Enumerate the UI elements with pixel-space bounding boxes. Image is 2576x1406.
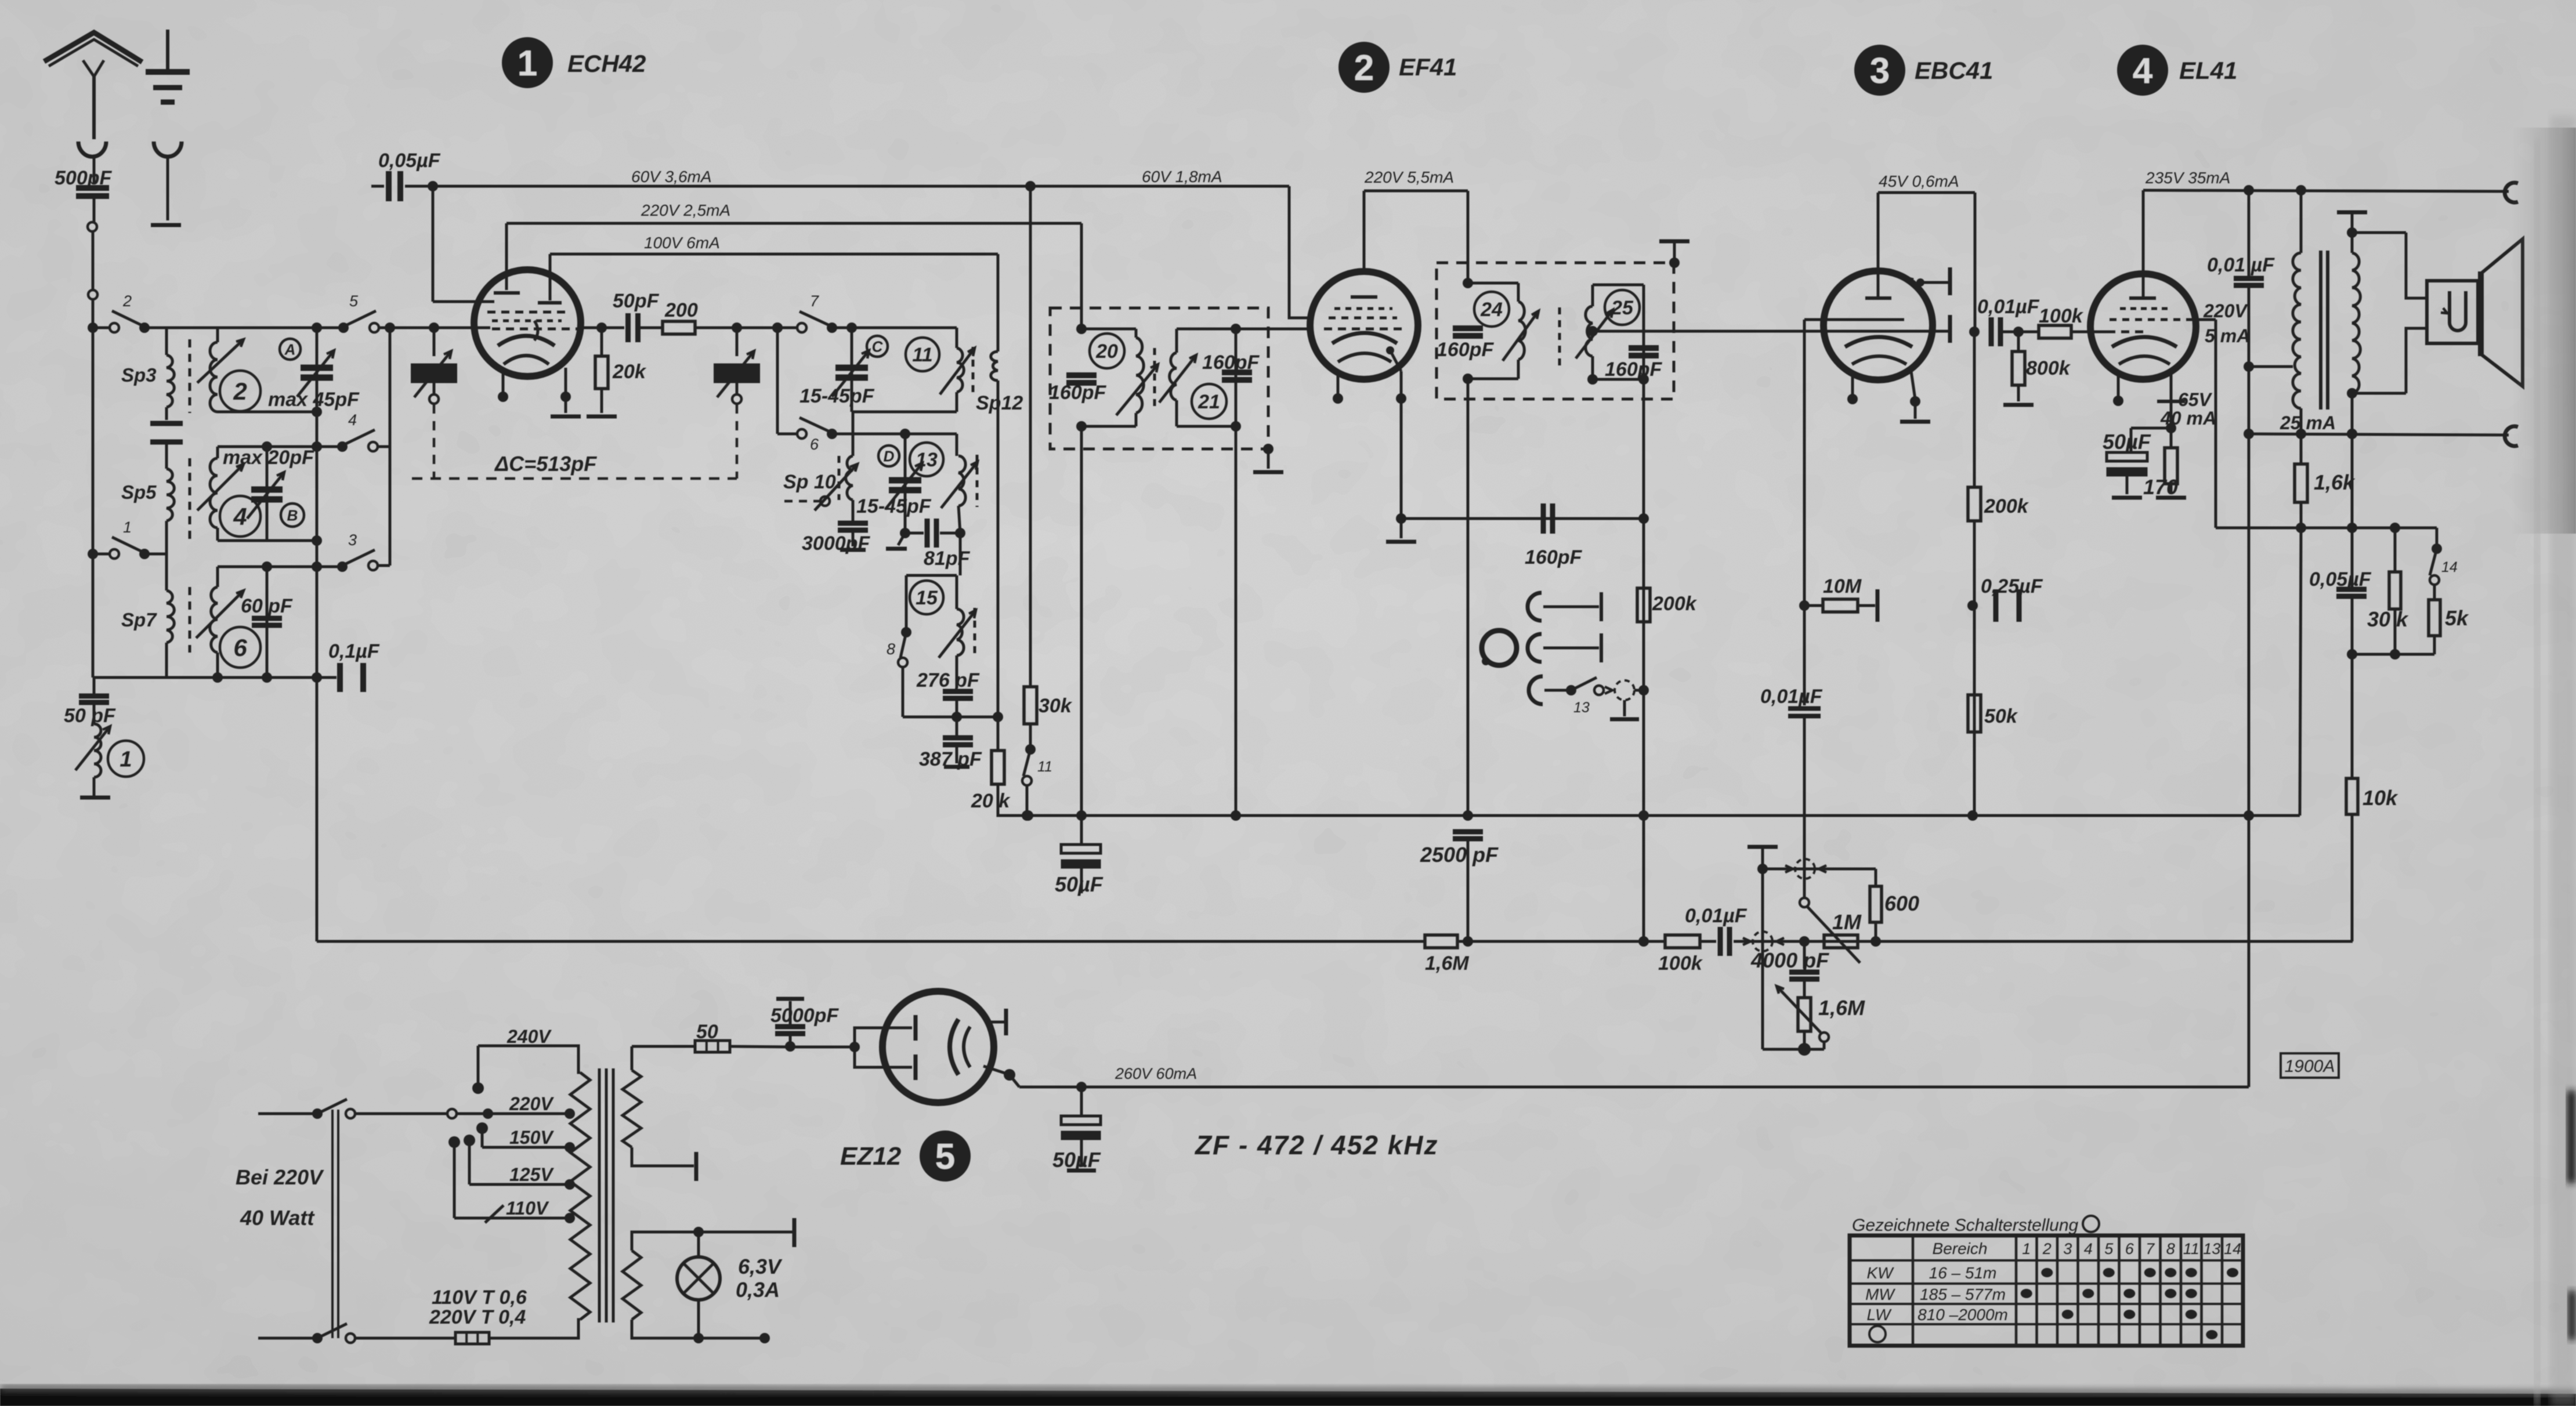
EZ12 cathode arc inner (964, 1027, 970, 1067)
50uF B lower (1080, 1140, 1083, 1167)
tube V1 ECH42 (474, 270, 581, 376)
capacitor 0,01uF coupling (1991, 317, 2000, 346)
svg-text:0,05µF: 0,05µF (378, 150, 441, 172)
label 0,01uF AVC (1685, 905, 1748, 927)
svg-text:1900A: 1900A (2285, 1057, 2335, 1076)
label 200k det (1984, 495, 2029, 517)
capacitor 50pF osc (628, 313, 638, 342)
node EZ12 anodes (849, 1042, 860, 1052)
5000pF T bar (776, 997, 804, 1001)
svg-text:max 45pF: max 45pF (268, 389, 360, 411)
label 0,01uF coupling (1977, 296, 2040, 318)
node rail 0,01uF (2244, 185, 2254, 195)
tank B left lower stub (216, 528, 219, 541)
AVC bus (317, 940, 1425, 943)
ECH42 leg right dot (560, 392, 571, 402)
output transformer secondary (2352, 253, 2360, 393)
secondary top T bar (2337, 211, 2367, 215)
table MW range (1920, 1285, 2006, 1303)
node tank B bottom (312, 535, 322, 546)
switch 5 dot (338, 322, 349, 333)
node fb 0,05uF (2347, 523, 2357, 533)
power transformer primary (570, 1072, 590, 1320)
EL41 cathode arc inner (2119, 356, 2170, 364)
table dot KW col (2144, 1268, 2156, 1277)
node bus 200k det (1967, 810, 1978, 821)
EF41 anode bar (1351, 295, 1377, 299)
svg-text:25 mA: 25 mA (2280, 412, 2336, 433)
EF41 cathode right dot (1396, 393, 1406, 404)
numbered tube 5 (920, 1130, 971, 1182)
node bus tank A right (312, 322, 322, 333)
label 5mA screen (2205, 325, 2250, 346)
node 25mA return (2347, 429, 2357, 439)
wire Sp7 to bottom bus (165, 643, 168, 677)
speaker cone (2482, 239, 2523, 386)
label 1,6M volume (1818, 996, 1865, 1020)
node IF1 sec top (1231, 324, 1241, 334)
diode1 link (1922, 281, 1948, 284)
core dashes tank C (189, 587, 191, 653)
svg-text:4000 pF: 4000 pF (1750, 948, 1829, 972)
1,6k upper stub (2300, 434, 2303, 464)
circle label 15 (910, 581, 943, 614)
svg-text:3: 3 (348, 531, 357, 549)
EBC41 anode vertical (1877, 193, 1880, 297)
label Sp5 (121, 481, 157, 503)
resistor 10M (1823, 599, 1858, 612)
capacitor 276pF (943, 691, 973, 698)
switch 4 lever (342, 430, 375, 445)
potentiometer 1M (1824, 935, 1858, 948)
EF41 cathode arc inner (1338, 353, 1391, 362)
capacitor 0,1uF (340, 663, 363, 692)
IF2 sec top wire (1593, 284, 1644, 287)
gang2 rotor terminal (732, 394, 741, 404)
table dot MW col (2021, 1289, 2032, 1298)
60V rail (405, 185, 1289, 188)
label 15-45pF tank11 (799, 385, 875, 407)
svg-text:11: 11 (2183, 1240, 2199, 1258)
Sp12 to 20k (997, 717, 1000, 751)
table dot KW col (2165, 1268, 2176, 1277)
wire Sp3 to coupling cap (165, 407, 168, 420)
switch position table grid (1850, 1235, 2243, 1346)
capacitor 160pF cathode (1543, 503, 1553, 534)
coil circuit 11 (957, 348, 964, 392)
dial lamp (677, 1257, 720, 1300)
50uF chassis bar (2112, 496, 2142, 500)
svg-text:EZ12: EZ12 (840, 1142, 902, 1171)
trimmer 15-45pF (D) (885, 463, 922, 509)
svg-text:20 k: 20 k (971, 790, 1011, 812)
svg-text:15-45pF: 15-45pF (799, 385, 875, 407)
coupling arrows lower (1743, 938, 1784, 945)
terminal circle 1 (88, 222, 97, 231)
switch 4 contact (368, 442, 378, 451)
tank B coil top stub (216, 447, 219, 458)
tank11 left vertical (851, 328, 853, 412)
label 1M (1832, 910, 1862, 934)
svg-text:6,3V: 6,3V (738, 1255, 783, 1278)
core dashes 13/Sp12 (976, 455, 979, 507)
svg-text:Sp 10: Sp 10 (783, 471, 836, 493)
switch 14 contact (2430, 575, 2439, 585)
antenna plug hook (78, 142, 106, 157)
0,05uF column lower (2351, 597, 2354, 654)
node row2 AVC (312, 441, 322, 452)
EL41 grid dashes (2093, 331, 2147, 334)
label 0,1uF (328, 640, 380, 662)
node IF2 box top (1669, 258, 1680, 268)
svg-text:6: 6 (233, 634, 247, 661)
svg-text:4: 4 (233, 503, 247, 530)
wire switch2 to Sp3 top (146, 327, 167, 329)
EF41 cathode arc outer (1332, 333, 1397, 343)
circle label 20 (1090, 334, 1124, 368)
svg-text:10k: 10k (2362, 786, 2398, 810)
ECH42 cathode left dot (498, 392, 508, 402)
coil Sp7 (167, 590, 174, 643)
table dot KW col (2103, 1268, 2115, 1277)
heater/anode line (632, 1045, 694, 1048)
mains switch lever bottom (317, 1324, 347, 1338)
heater end dot (759, 1333, 770, 1343)
svg-text:A: A (284, 340, 296, 358)
circle label 21 (1192, 384, 1227, 419)
label 500pF (55, 167, 112, 189)
svg-text:240V: 240V (506, 1026, 552, 1047)
EF41 g3 dashes (1334, 307, 1392, 310)
EF41 anode vertical (1363, 191, 1366, 272)
capacitor 0,25uF (1996, 589, 2019, 622)
label 150V (509, 1127, 554, 1148)
scan right black blob 2 (2568, 1291, 2576, 1340)
label EF41 (1399, 53, 1457, 81)
svg-text:50µF: 50µF (1055, 872, 1104, 896)
IF1 chassis bar (1253, 470, 1283, 474)
mains switch dot top (312, 1108, 323, 1119)
label 13 (switch) (1573, 700, 1590, 716)
svg-text:4: 4 (2084, 1240, 2093, 1258)
label 160pF IF1a (1049, 382, 1106, 404)
5000pF stub (789, 1036, 792, 1046)
node IF2 primary bottom (1463, 374, 1473, 384)
capacitor 0,05uF (2336, 589, 2367, 596)
label EBC41 (1915, 57, 1993, 84)
20k to bus corner (998, 784, 2300, 816)
EF41 cathode leg left (1337, 375, 1340, 394)
label 50k (1984, 705, 2018, 727)
IF2 box top stub (1673, 242, 1676, 263)
node 20k top (596, 322, 607, 333)
node osc bottom Sp12 (993, 712, 1003, 722)
Sp10 switch dashed stub (784, 500, 820, 503)
EZ12 cathode dot (1004, 1069, 1015, 1081)
pot T stub (1761, 847, 1764, 868)
tank13 end bar (886, 547, 907, 551)
tank C top stub (216, 567, 219, 587)
IF1 primary top wire (1081, 328, 1136, 331)
387pF end bar (944, 765, 969, 769)
node primary tap (2244, 361, 2254, 372)
label 30k tone (2367, 607, 2409, 631)
wire switch3 to right vert (377, 564, 390, 567)
label 2500pF (1420, 843, 1499, 867)
20k bottom stub (600, 389, 603, 413)
tone cap vertical (2248, 190, 2251, 277)
fuse to EZ12 (730, 1046, 793, 1047)
svg-text:D: D (884, 447, 895, 465)
150V tap wire (482, 1146, 570, 1149)
label 5 (switch) (349, 292, 359, 310)
svg-text:1: 1 (123, 519, 132, 536)
IF1 primary to bus (1080, 426, 1083, 816)
node main bus left (88, 322, 98, 333)
EF41 cathode ground stub (1400, 519, 1403, 538)
label 220V T0,4 (429, 1306, 526, 1328)
gang1 lower stub (433, 383, 436, 394)
heater bottom wire (632, 1320, 765, 1338)
node cathode RC (2166, 423, 2176, 433)
tap dot 150 (565, 1142, 575, 1153)
svg-text:276 pF: 276 pF (916, 669, 980, 691)
wire 200 to osc tank (695, 327, 798, 329)
node fb 30k (2390, 523, 2400, 533)
capacitor 0,01uF grid (1788, 709, 1821, 716)
arrow coil 1 (75, 726, 110, 770)
IF1 sec left upper (1175, 329, 1178, 353)
wire 50pF to 200 (638, 327, 663, 329)
svg-text:160pF: 160pF (1049, 382, 1106, 404)
600 to AVC (1875, 922, 1877, 941)
EZ12 anode branch top (855, 1028, 912, 1047)
0,05uF left stub (371, 185, 384, 188)
node 25mA tone (2244, 429, 2254, 439)
variable capacitor gang 1 (411, 351, 457, 397)
mech coupling circle lower (1753, 932, 1772, 951)
coupling capacitor Sp3/Sp5 (150, 423, 183, 442)
label 220V 5,5mA (1364, 168, 1454, 186)
core dashes IF2 (1558, 307, 1561, 365)
switch8 to bottom (902, 667, 905, 717)
node rail primary (2296, 185, 2306, 195)
ECH42 grid4 dashes (487, 311, 566, 314)
switch 6 lever (799, 418, 832, 433)
switch11 to bus (1026, 785, 1029, 816)
circle label 1 (108, 741, 144, 777)
svg-text:6: 6 (810, 436, 819, 453)
label 50pF (613, 290, 660, 312)
output transformer core (2321, 251, 2328, 410)
label 387pF (919, 748, 982, 770)
pot column down (1761, 869, 1764, 1049)
triode anode bar (494, 291, 520, 295)
trimmer 15-45pF (C) (832, 350, 869, 397)
EL41 anode bar (2129, 296, 2156, 300)
svg-text:2500 pF: 2500 pF (1420, 843, 1499, 867)
capacitor 81pF (927, 519, 936, 548)
svg-text:2: 2 (233, 378, 247, 405)
Sp10 switch contact (820, 497, 830, 506)
EF41 screen dashes (1329, 317, 1397, 320)
capacitor 160pF IF1b (1222, 372, 1252, 380)
node 60V to 30k (1025, 181, 1036, 191)
200k column to AVC (1642, 816, 1645, 941)
node IF2 sec bottom left (1587, 374, 1598, 385)
EBC41 cathode ground stub (1914, 401, 1917, 419)
table dot MW col (2123, 1289, 2135, 1298)
tank11 left to Sp10 coil (852, 412, 855, 456)
circle label C (867, 336, 888, 357)
label 200k IF (1652, 593, 1698, 615)
svg-text:220V 2,5mA: 220V 2,5mA (641, 201, 730, 219)
table header Bereich (1933, 1240, 1988, 1258)
EF41 cathode leg right (1400, 371, 1403, 519)
EBC41 cathode arc outer (1845, 337, 1912, 347)
core dashes Sp10 (838, 456, 841, 500)
node IF1 box ground (1263, 444, 1273, 454)
label 14 (switch) (2441, 559, 2458, 575)
circle label D (878, 445, 899, 466)
secondary lower stub (2351, 393, 2354, 434)
coil Sp5 (167, 469, 174, 521)
EL41 screen exit (2191, 318, 2216, 321)
label EZ12 (840, 1142, 902, 1171)
osc branch vertical (776, 328, 779, 434)
50uF lower stub (1080, 868, 1083, 893)
heater top wire (632, 1232, 793, 1251)
EL41 anode vertical (2142, 190, 2145, 298)
table row LW (1867, 1306, 1893, 1324)
switch 11 lever (1023, 749, 1030, 776)
svg-text:1M: 1M (1832, 910, 1862, 934)
svg-text:50k: 50k (1984, 705, 2018, 727)
circle label 24 (1474, 292, 1509, 327)
node AVC 600 (1871, 936, 1881, 947)
coil circuit 1 (94, 724, 101, 777)
IF1 sec to bus (1235, 426, 1238, 816)
svg-text:800k: 800k (2026, 357, 2071, 379)
HV chassis bar (694, 1152, 699, 1181)
switch14 corner (2436, 528, 2438, 546)
label 50uF B (1052, 1148, 1101, 1172)
label 1,6k (2314, 470, 2356, 494)
pot bottom rail (1763, 1048, 1824, 1051)
label ECH42 (567, 50, 646, 77)
50uF cathode stub (2130, 428, 2133, 451)
label 100k coupling (2039, 305, 2084, 327)
switch 8 contact (898, 658, 907, 667)
coupling to 100k (2002, 331, 2039, 334)
label 50pF (64, 705, 116, 727)
table dot MW col (2186, 1289, 2197, 1298)
svg-text:Sp7: Sp7 (121, 609, 157, 630)
label 81pF (924, 548, 971, 570)
resistor 600 (1870, 886, 1882, 922)
30k column (1029, 186, 1032, 687)
table title Gezeichnete Schalterstellung (1852, 1216, 2079, 1235)
svg-text:50: 50 (696, 1021, 718, 1043)
pickup stylus dot (1482, 657, 1490, 665)
label 125V (509, 1164, 554, 1185)
mains switch lever top (317, 1099, 347, 1114)
tank13 mid lower stub (898, 533, 905, 545)
mains wire top (258, 1113, 314, 1115)
secondary bottom wire to speaker (2352, 392, 2406, 395)
ECH42 cathode leg left (502, 372, 505, 393)
node tank A bottom right (312, 407, 322, 417)
switch 13 contact (1594, 686, 1604, 695)
capacitor 2500pF (1453, 832, 1483, 839)
resistor 170 (2165, 448, 2177, 484)
gang2 lower stub (736, 383, 739, 394)
output transformer primary (2293, 253, 2301, 408)
2500pF to AVC bus (1467, 841, 1470, 941)
IF2 sec right vertical (1642, 285, 1645, 379)
node EF41 cathode bypass (1396, 513, 1406, 524)
svg-text:170: 170 (2143, 475, 2178, 499)
hexode anode bar (538, 301, 562, 305)
label 6,3V (738, 1255, 783, 1278)
numbered tube 4 (2117, 45, 2168, 96)
svg-text:2: 2 (122, 292, 132, 310)
switch 1 dot (139, 549, 150, 559)
svg-text:24: 24 (1480, 299, 1503, 321)
IF2 sec bottom wire (1593, 378, 1644, 381)
wire switch6 row (834, 433, 957, 436)
core dashes 11/Sp12 (972, 347, 975, 394)
chassis bar below ground hook (151, 223, 181, 227)
node lamp top (693, 1227, 704, 1237)
svg-text:2: 2 (1354, 48, 1374, 88)
label 20k osc (971, 790, 1011, 812)
4000pF to 1,6M (1803, 981, 1806, 998)
svg-text:25: 25 (1611, 297, 1634, 319)
tank15 left vertical (905, 575, 908, 629)
IF1 sec to EF41 grid (1236, 328, 1312, 331)
resistor 1,6k (2295, 464, 2307, 502)
circle label 6 (220, 627, 261, 668)
node AVC 200k (1638, 936, 1649, 947)
svg-text:Bereich: Bereich (1933, 1240, 1988, 1258)
svg-text:600: 600 (1884, 892, 1919, 915)
arrow Sp10 wiper (815, 464, 858, 510)
svg-text:6: 6 (2125, 1240, 2134, 1258)
resistor 800k (2012, 351, 2025, 385)
60V rail right corner (1289, 186, 1312, 318)
60pF column (266, 567, 269, 677)
screen feed into tube (433, 300, 494, 303)
arrow coil 25 (1576, 310, 1613, 358)
200k det column upper (1973, 332, 1976, 487)
numbered tube 3 (1854, 45, 1905, 96)
240V tap wire (478, 1046, 580, 1072)
node 800k top (2013, 327, 2024, 337)
svg-text:11: 11 (912, 344, 932, 366)
800k lower stub (2017, 385, 2020, 401)
AVC bus to cap (1700, 940, 1716, 943)
resistor 100k AVC (1665, 935, 1700, 948)
label ZF-472/452 kHz (1194, 1130, 1439, 1160)
wire Sp3 column top (165, 328, 168, 355)
trimmer max20pF (247, 472, 284, 519)
81pF row right (940, 532, 960, 535)
trimmer max45pF (297, 350, 334, 397)
antenna symbol (44, 32, 142, 104)
tank13 right vertical (956, 434, 958, 456)
svg-text:2: 2 (2042, 1240, 2052, 1258)
